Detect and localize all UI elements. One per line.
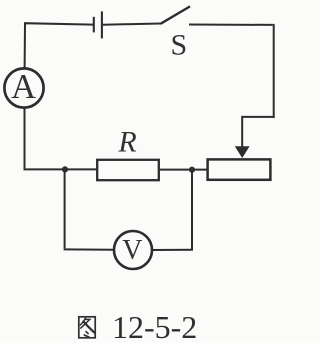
switch S blade [161,6,191,23]
wiper arrowhead [235,146,250,158]
svg-text:R: R [117,125,136,158]
svg-text:12-5-2: 12-5-2 [112,309,197,343]
wiper arrow shaft [241,116,243,148]
wire battery to switch [103,24,161,25]
rheostat RP box [208,159,271,179]
resistor R box [97,160,159,180]
wire voltmeter left horizontal [64,248,115,250]
wire right vertical [273,24,275,118]
wire resistor to rheostat [159,169,208,171]
voltmeter V circle [114,231,152,269]
caption hanzi tu (figure) drawn as strokes [79,317,95,338]
wire step to wiper [242,116,275,118]
ammeter A [4,68,43,107]
battery cell [94,11,102,38]
wire junction2 down [191,170,193,250]
svg-text:A: A [11,68,36,106]
svg-text:S: S [170,28,187,61]
wire junction1 down to voltmeter row [64,169,66,248]
svg-text:V: V [122,235,142,266]
junction node 2 [189,167,195,173]
junction node 1 [62,166,68,172]
wire voltmeter right horizontal [152,249,193,251]
wire switch to top-right corner [189,24,273,26]
wire ammeter to bottom-left corner [24,108,26,169]
wire top-left: corner to battery [25,23,93,68]
wire bottom-left horizontal to resistor [24,168,98,170]
